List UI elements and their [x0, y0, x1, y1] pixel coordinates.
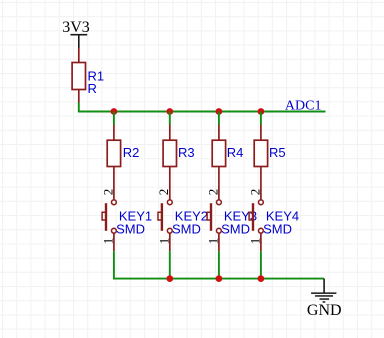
wire [218, 112, 220, 126]
junction [166, 108, 173, 115]
wire [113, 112, 115, 126]
junction [216, 275, 223, 282]
svg-text:2: 2 [100, 189, 115, 196]
svg-text:R3: R3 [178, 145, 195, 160]
svg-text:1: 1 [100, 238, 115, 245]
junction [258, 275, 265, 282]
svg-text:SMD: SMD [221, 222, 250, 237]
wire [169, 112, 171, 126]
svg-text:1: 1 [205, 238, 220, 245]
wire [218, 251, 220, 278]
net ADC1 wire [78, 111, 326, 113]
svg-text:R: R [88, 81, 97, 96]
resistor R3 [163, 125, 176, 200]
svg-text:GND: GND [307, 302, 342, 319]
power 3V3 [62, 19, 90, 48]
resistor R5 [254, 125, 267, 200]
junction [258, 108, 265, 115]
svg-text:SMD: SMD [263, 222, 292, 237]
svg-text:3V3: 3V3 [62, 19, 90, 36]
wire [113, 251, 115, 278]
junction [216, 108, 223, 115]
svg-text:SMD: SMD [172, 222, 201, 237]
switch KEY2 [158, 200, 172, 251]
switch KEY3 [207, 200, 221, 251]
svg-text:2: 2 [205, 189, 220, 196]
resistor R2 [107, 125, 120, 200]
wire [260, 251, 262, 278]
switch KEY4 [249, 200, 263, 251]
wire [78, 103, 80, 112]
svg-text:1: 1 [156, 238, 171, 245]
junction [111, 108, 118, 115]
switch KEY1 [102, 200, 116, 251]
svg-text:2: 2 [247, 189, 262, 196]
ground [311, 279, 336, 303]
svg-text:2: 2 [156, 189, 171, 196]
svg-text:R5: R5 [269, 145, 286, 160]
svg-text:SMD: SMD [116, 222, 145, 237]
resistor R1 [72, 48, 85, 103]
resistor R4 [212, 125, 225, 200]
svg-text:ADC1: ADC1 [285, 98, 322, 113]
svg-text:R4: R4 [227, 145, 244, 160]
junction [166, 275, 173, 282]
gnd wire [113, 278, 324, 280]
wire [260, 112, 262, 126]
wire [169, 251, 171, 278]
svg-text:R2: R2 [123, 145, 140, 160]
svg-text:1: 1 [247, 238, 262, 245]
